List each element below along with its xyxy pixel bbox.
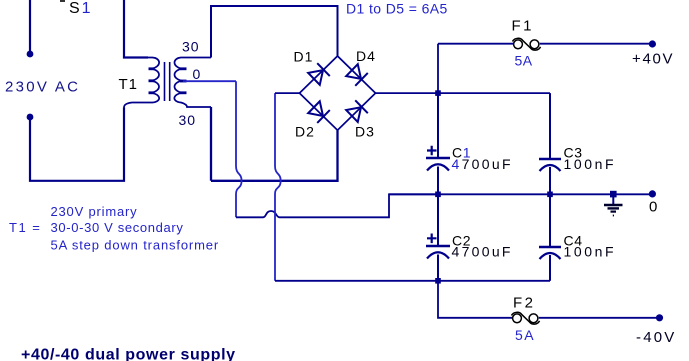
capacitor C2 plus sign <box>427 234 437 244</box>
svg-text:-40V: -40V <box>636 329 677 346</box>
svg-text:0: 0 <box>649 199 657 216</box>
svg-text:5A: 5A <box>515 327 535 343</box>
svg-text:+40V: +40V <box>632 51 674 68</box>
svg-text:T1: T1 <box>119 76 139 93</box>
wire: fuse F2 right lead to -40V terminal <box>539 317 660 319</box>
wire: bottom rail down to fuse F2 line <box>438 281 512 318</box>
capacitor C2 top lead <box>437 194 439 246</box>
capacitor C2 bottom lead <box>437 255 439 281</box>
svg-text:F1: F1 <box>512 18 535 35</box>
node: AC terminal 1 dot <box>27 51 34 58</box>
node: junction C3/C4 on mid rail <box>547 192 553 198</box>
wire: secondary top 30 to bridge top <box>211 6 338 58</box>
wire: bridge minus stub <box>275 92 300 94</box>
svg-text:D3: D3 <box>355 124 375 140</box>
svg-text:230V primary: 230V primary <box>51 204 138 219</box>
capacitor C4 top lead <box>549 194 551 247</box>
diode D4 <box>346 64 368 86</box>
svg-text:100nF: 100nF <box>564 156 617 172</box>
svg-text:0: 0 <box>193 66 201 82</box>
svg-text:S1: S1 <box>69 0 93 17</box>
node: junction F2 branch on bottom rail <box>435 278 441 284</box>
transformer T1 primary winding <box>124 58 159 108</box>
node: junction top rail / F1 branch <box>435 90 441 96</box>
wire: center tap run to mid rail (with hop over minus wire) <box>236 194 438 217</box>
wire: bridge minus vertical with hop <box>275 93 281 281</box>
node: 0V terminal dot <box>649 190 656 197</box>
svg-text:5A: 5A <box>515 53 533 69</box>
capacitor C3 bottom lead <box>549 167 551 194</box>
node: -40V terminal dot <box>656 314 663 321</box>
diode D1 <box>308 63 330 85</box>
fuse F1 <box>513 38 541 50</box>
svg-text:30-0-30 V secondary: 30-0-30 V secondary <box>51 220 184 235</box>
switch S1 stub remnant <box>60 0 65 2</box>
wire: center tap horizontal <box>183 80 236 82</box>
node: +40V terminal dot <box>649 40 656 47</box>
svg-text:D1 to D5 = 6A5: D1 to D5 = 6A5 <box>346 1 448 17</box>
svg-text:5A step down transformer: 5A step down transformer <box>51 237 220 252</box>
wire: fuse F1 right lead to +40V terminal <box>540 43 653 45</box>
bridge rectifier diamond <box>300 56 376 130</box>
svg-text:+40/-40 dual power supply: +40/-40 dual power supply <box>21 347 236 361</box>
wire: bridge plus to top rail <box>376 92 551 94</box>
wire: top rail up to fuse line <box>437 44 439 93</box>
svg-text:D2: D2 <box>295 124 315 140</box>
capacitor C4 plates <box>539 246 561 249</box>
svg-text:30: 30 <box>179 112 197 128</box>
transformer primary tap ticks <box>149 67 155 70</box>
svg-text:D4: D4 <box>356 48 376 64</box>
wire: mid (0V) rail <box>389 193 653 195</box>
svg-text:230V AC: 230V AC <box>5 79 80 96</box>
diode D3 <box>346 100 368 122</box>
capacitor C1 plus sign <box>427 146 437 156</box>
svg-text:4700uF: 4700uF <box>452 156 513 172</box>
svg-text:4700uF: 4700uF <box>452 244 513 260</box>
fuse F2 <box>512 312 540 324</box>
capacitor C1 top lead <box>437 93 439 158</box>
capacitor C1 plates <box>426 157 450 160</box>
svg-text:30: 30 <box>182 39 200 55</box>
svg-text:F2: F2 <box>513 295 536 312</box>
capacitor C3 top lead <box>549 93 551 159</box>
wire: secondary bottom 30 to bridge bottom <box>211 107 338 181</box>
wire: fuse F1 left lead <box>438 43 513 45</box>
capacitor C1 bottom lead <box>437 167 439 195</box>
wire: AC line 2 down to primary bottom <box>30 108 124 181</box>
wire: S1 to primary top <box>124 0 148 58</box>
node: AC terminal 2 dot <box>27 114 34 121</box>
switch S1 lead left (230V AC input line 1) <box>29 0 31 54</box>
capacitor C2 plates <box>426 245 450 248</box>
svg-text:100nF: 100nF <box>564 244 617 260</box>
capacitor C4 bottom lead <box>549 255 551 281</box>
svg-text:D1: D1 <box>294 49 314 65</box>
node: junction C1/C2 on mid rail <box>435 192 441 198</box>
node: junction ground tap on mid rail <box>610 191 617 198</box>
transformer T1 secondary winding <box>174 58 211 108</box>
transformer secondary tap ticks <box>180 67 187 70</box>
transformer T1 core <box>165 62 170 101</box>
wire: bottom (minus) rail <box>275 280 550 282</box>
wire: center tap vertical with hop over horizontal <box>236 81 242 217</box>
svg-text:T1 =: T1 = <box>9 220 41 235</box>
diode D2 <box>308 101 330 123</box>
ground symbol <box>604 194 623 215</box>
capacitor C3 plates <box>539 158 561 161</box>
